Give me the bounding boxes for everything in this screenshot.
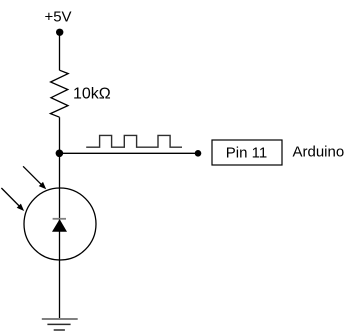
Pin 11 box xyxy=(212,140,282,165)
diode triangle (anode) xyxy=(53,220,67,231)
wire: horizontal junction to Pin 11 xyxy=(60,152,198,154)
light arrow 1 xyxy=(23,166,46,189)
ground symbol bar 1 xyxy=(42,318,78,320)
node: +5V terminal dot xyxy=(56,29,63,36)
light arrow 2 xyxy=(1,188,24,211)
svg-text:Arduino: Arduino xyxy=(293,143,345,160)
svg-text:Pin 11: Pin 11 xyxy=(226,145,267,162)
photodiode D1 circle xyxy=(24,188,96,260)
node dot at Pin 11 end xyxy=(195,150,202,157)
svg-text:+5V: +5V xyxy=(44,8,71,25)
wire: resistor bottom through junction and photodiode down to ground xyxy=(59,117,61,319)
svg-text:10kΩ: 10kΩ xyxy=(73,86,111,103)
ground symbol bar 3 xyxy=(54,329,65,331)
PWM square-wave signal symbol xyxy=(86,135,182,147)
ground symbol bar 2 xyxy=(47,323,70,325)
diode cathode bar xyxy=(53,218,66,220)
wire: +5V dot to resistor top xyxy=(59,32,61,70)
resistor R1 10k zigzag xyxy=(50,70,68,117)
junction node dot xyxy=(56,150,64,158)
